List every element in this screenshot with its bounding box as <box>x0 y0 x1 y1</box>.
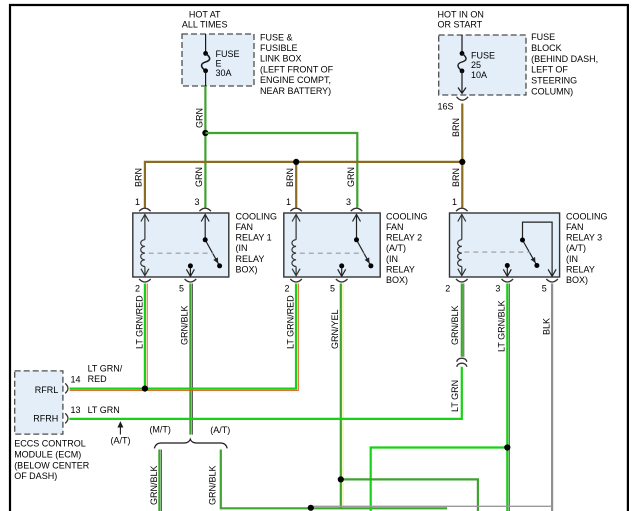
node: HOT IN ON OR START <box>438 9 484 29</box>
svg-text:RELAY: RELAY <box>236 254 265 264</box>
svg-text:2: 2 <box>445 284 450 294</box>
svg-text:(LEFT FRONT OF: (LEFT FRONT OF <box>260 64 334 74</box>
wire LT GRN/RED relay1 pin2 down <box>144 284 146 389</box>
connector dome relay1 pin3 <box>199 208 211 211</box>
wire BRN bus <box>145 162 462 208</box>
svg-text:BRN: BRN <box>451 118 461 137</box>
svg-text:RELAY 2: RELAY 2 <box>386 233 422 243</box>
svg-text:16S: 16S <box>438 102 454 112</box>
wire GRN from fuse E down to relay 1 pin 3 <box>204 86 206 208</box>
connector cup relay1 pin2 <box>139 279 151 282</box>
svg-text:BLOCK: BLOCK <box>531 43 562 53</box>
wire LT GRN/BLK relay3 pin3 down <box>506 284 508 511</box>
(A/T) pointer on LT GRN wire <box>119 423 121 435</box>
svg-text:LT GRN/RED: LT GRN/RED <box>134 295 144 349</box>
svg-text:RELAY: RELAY <box>566 264 595 274</box>
svg-text:BOX): BOX) <box>566 275 588 285</box>
svg-text:1: 1 <box>135 197 140 207</box>
svg-text:(BEHIND DASH,: (BEHIND DASH, <box>531 54 598 64</box>
svg-text:BLK: BLK <box>542 318 552 335</box>
connector dome relay2 pin1 <box>290 208 302 211</box>
relay K2 coil (pins 1-2) <box>292 215 300 276</box>
connector cup relay3 pin3 <box>502 279 514 282</box>
svg-text:GRN/YEL: GRN/YEL <box>330 309 340 349</box>
svg-text:10A: 10A <box>471 70 487 80</box>
fusible link FUSE E 30A <box>202 34 240 86</box>
node: junction GRN/YEL <box>338 476 344 482</box>
svg-text:RELAY 3: RELAY 3 <box>566 233 602 243</box>
svg-text:5: 5 <box>330 284 335 294</box>
connector cup relay2 pin2 <box>290 279 302 282</box>
svg-text:(A/T): (A/T) <box>566 243 586 253</box>
svg-text:LT GRN: LT GRN <box>88 405 120 415</box>
svg-text:14: 14 <box>71 375 81 385</box>
wire GRN/BLK A/T branch <box>221 450 447 509</box>
svg-text:1: 1 <box>286 197 291 207</box>
svg-text:LEFT OF: LEFT OF <box>531 65 568 75</box>
svg-text:FUSIBLE: FUSIBLE <box>260 43 298 53</box>
svg-text:OR START: OR START <box>438 20 483 30</box>
svg-text:2: 2 <box>284 284 289 294</box>
fuse 25 10A <box>458 35 495 93</box>
svg-text:COOLING: COOLING <box>236 211 278 221</box>
svg-text:GRN: GRN <box>194 108 204 128</box>
node: BRN junction at relay 2 <box>293 159 299 165</box>
svg-text:1: 1 <box>452 197 457 207</box>
svg-text:GRN: GRN <box>194 167 204 187</box>
relay K2 mechanical link (dashed) <box>300 252 365 254</box>
svg-text:FAN: FAN <box>566 222 584 232</box>
relay K2 body <box>284 213 380 277</box>
relay K3 switch (pins 3-5) <box>503 222 556 276</box>
svg-text:5: 5 <box>542 284 547 294</box>
relay K1 coil (pins 1-2) <box>141 215 149 276</box>
svg-text:3: 3 <box>495 284 500 294</box>
svg-text:(A/T): (A/T) <box>111 436 131 446</box>
svg-text:COLUMN): COLUMN) <box>531 86 573 96</box>
node: junction LT GRN/RED <box>142 386 148 392</box>
svg-text:LT GRN: LT GRN <box>450 380 460 412</box>
wire BRN drop to relay 3 pin 1 <box>461 162 463 208</box>
wire GRN/BLK relay1 pin5 down to brace <box>189 284 191 435</box>
svg-text:BRN: BRN <box>451 168 461 187</box>
svg-text:COOLING: COOLING <box>386 211 428 221</box>
svg-text:2: 2 <box>135 284 140 294</box>
svg-text:30A: 30A <box>216 68 232 78</box>
label: COOLING FAN RELAY 1 <box>236 211 278 274</box>
svg-text:MODULE (ECM): MODULE (ECM) <box>14 449 81 459</box>
connector cup relay1 pin5 <box>185 279 197 282</box>
svg-text:FUSE: FUSE <box>471 51 495 61</box>
svg-text:GRN/BLK: GRN/BLK <box>180 305 190 345</box>
svg-text:GRN/BLK: GRN/BLK <box>149 465 159 505</box>
svg-text:5: 5 <box>179 284 184 294</box>
label: fuse block location <box>531 32 598 96</box>
svg-text:RFRH: RFRH <box>33 414 58 424</box>
relay K1 body <box>133 213 229 277</box>
relay K1 switch (pins 3-5) <box>186 215 219 277</box>
node: BRN junction at relay 3 <box>459 159 465 165</box>
connector cup relay3 pin2 <box>456 279 468 282</box>
relay K1 mechanical link (dashed) <box>149 252 214 254</box>
svg-text:RFRL: RFRL <box>35 385 59 395</box>
node: junction bottom <box>308 505 314 511</box>
connector dome relay2 pin3 <box>351 208 363 211</box>
wire LT GRN/BLK branch left and down <box>371 448 508 511</box>
svg-text:RELAY 1: RELAY 1 <box>236 233 272 243</box>
wire BRN from fuse 25 to bus <box>461 104 463 162</box>
svg-text:COOLING: COOLING <box>566 211 608 221</box>
svg-text:HOT AT: HOT AT <box>189 10 221 20</box>
svg-text:(A/T): (A/T) <box>210 425 230 435</box>
wire LT GRN from connector to ECM RFRH line <box>69 367 461 419</box>
label: COOLING FAN RELAY 3 <box>566 211 608 285</box>
label: fuse & fusible link box location <box>260 32 334 96</box>
wire GRN branch to relay 2 pin 3 <box>205 133 357 208</box>
svg-text:NEAR BATTERY): NEAR BATTERY) <box>260 86 331 96</box>
wire LT GRN/RED relay2 pin2 down and left to ECM <box>70 284 296 389</box>
wire GRN/BLK M/T branch <box>158 450 160 511</box>
svg-text:BRN: BRN <box>285 168 295 187</box>
svg-text:LT GRN/RED: LT GRN/RED <box>285 295 295 349</box>
connector dome relay1 pin1 <box>139 208 151 211</box>
inline connector on relay3 pin2 wire <box>457 358 467 362</box>
svg-text:GRN/BLK: GRN/BLK <box>450 305 460 345</box>
svg-text:FUSE &: FUSE & <box>260 32 293 42</box>
node: GRN junction <box>202 130 208 136</box>
wire BRN drop to relay 2 pin 1 <box>295 162 297 208</box>
svg-text:OF DASH): OF DASH) <box>14 471 57 481</box>
svg-text:(IN: (IN <box>386 254 398 264</box>
svg-text:LINK BOX: LINK BOX <box>260 54 302 64</box>
svg-text:E: E <box>216 59 222 69</box>
svg-text:BOX): BOX) <box>236 264 258 274</box>
svg-text:FAN: FAN <box>236 222 254 232</box>
label: ECM caption <box>14 439 90 482</box>
svg-text:GRN: GRN <box>346 167 356 187</box>
svg-text:FAN: FAN <box>386 222 404 232</box>
connector cup relay2 pin5 <box>336 279 348 282</box>
node: junction LT GRN/BLK <box>504 444 510 450</box>
svg-text:(IN: (IN <box>236 243 248 253</box>
svg-text:RELAY: RELAY <box>386 264 415 274</box>
svg-text:BOX): BOX) <box>386 275 408 285</box>
wire GRN/YEL branch right and down <box>341 479 478 511</box>
ECCS control module (ECM) box <box>15 371 63 434</box>
label: COOLING FAN RELAY 2 <box>386 211 428 285</box>
svg-text:(IN: (IN <box>566 254 578 264</box>
svg-text:LT GRN/: LT GRN/ <box>88 364 123 374</box>
svg-text:3: 3 <box>346 197 351 207</box>
svg-text:FUSE: FUSE <box>531 32 555 42</box>
connector cup relay3 pin5 <box>546 279 558 282</box>
svg-text:BRN: BRN <box>134 168 144 187</box>
relay K3 mechanical link (dashed) <box>464 251 530 253</box>
brace split M/T-A/T <box>154 439 227 448</box>
svg-text:GRN/BLK: GRN/BLK <box>207 465 217 505</box>
wire GRN/BLK relay3 pin2 down to connector <box>461 284 463 357</box>
relay K2 switch (pins 3-5) <box>338 215 371 277</box>
connector 16S below fuse block <box>457 97 469 100</box>
fuse & fusible link box (dashed, around fuse E) <box>182 34 254 86</box>
svg-text:13: 13 <box>71 405 81 415</box>
svg-text:25: 25 <box>471 60 481 70</box>
node: HOT AT ALL TIMES <box>182 10 228 30</box>
relay K3 coil (pins 1-2) <box>458 215 466 276</box>
svg-text:LT GRN/BLK: LT GRN/BLK <box>497 300 507 352</box>
wire GRN/YEL relay2 pin5 down <box>340 284 342 509</box>
svg-text:RED: RED <box>88 374 108 384</box>
connector dome relay3 pin1 <box>456 208 468 211</box>
svg-text:(BELOW CENTER: (BELOW CENTER <box>14 460 90 470</box>
svg-text:(M/T): (M/T) <box>149 424 171 434</box>
svg-text:(A/T): (A/T) <box>386 243 406 253</box>
wire BLK bottom horizontal <box>313 505 552 507</box>
svg-text:FUSE: FUSE <box>216 49 240 59</box>
relay K3 body <box>450 213 560 277</box>
svg-text:ECCS CONTROL: ECCS CONTROL <box>14 439 86 449</box>
svg-text:STEERING: STEERING <box>531 76 577 86</box>
svg-text:3: 3 <box>194 197 199 207</box>
svg-text:ALL TIMES: ALL TIMES <box>182 20 228 30</box>
fuse block box (dashed, around fuse 25) <box>439 35 526 95</box>
wire BLK relay3 pin5 down <box>551 284 553 511</box>
svg-text:ENGINE COMPT,: ENGINE COMPT, <box>260 75 331 85</box>
svg-text:HOT IN ON: HOT IN ON <box>438 9 484 19</box>
